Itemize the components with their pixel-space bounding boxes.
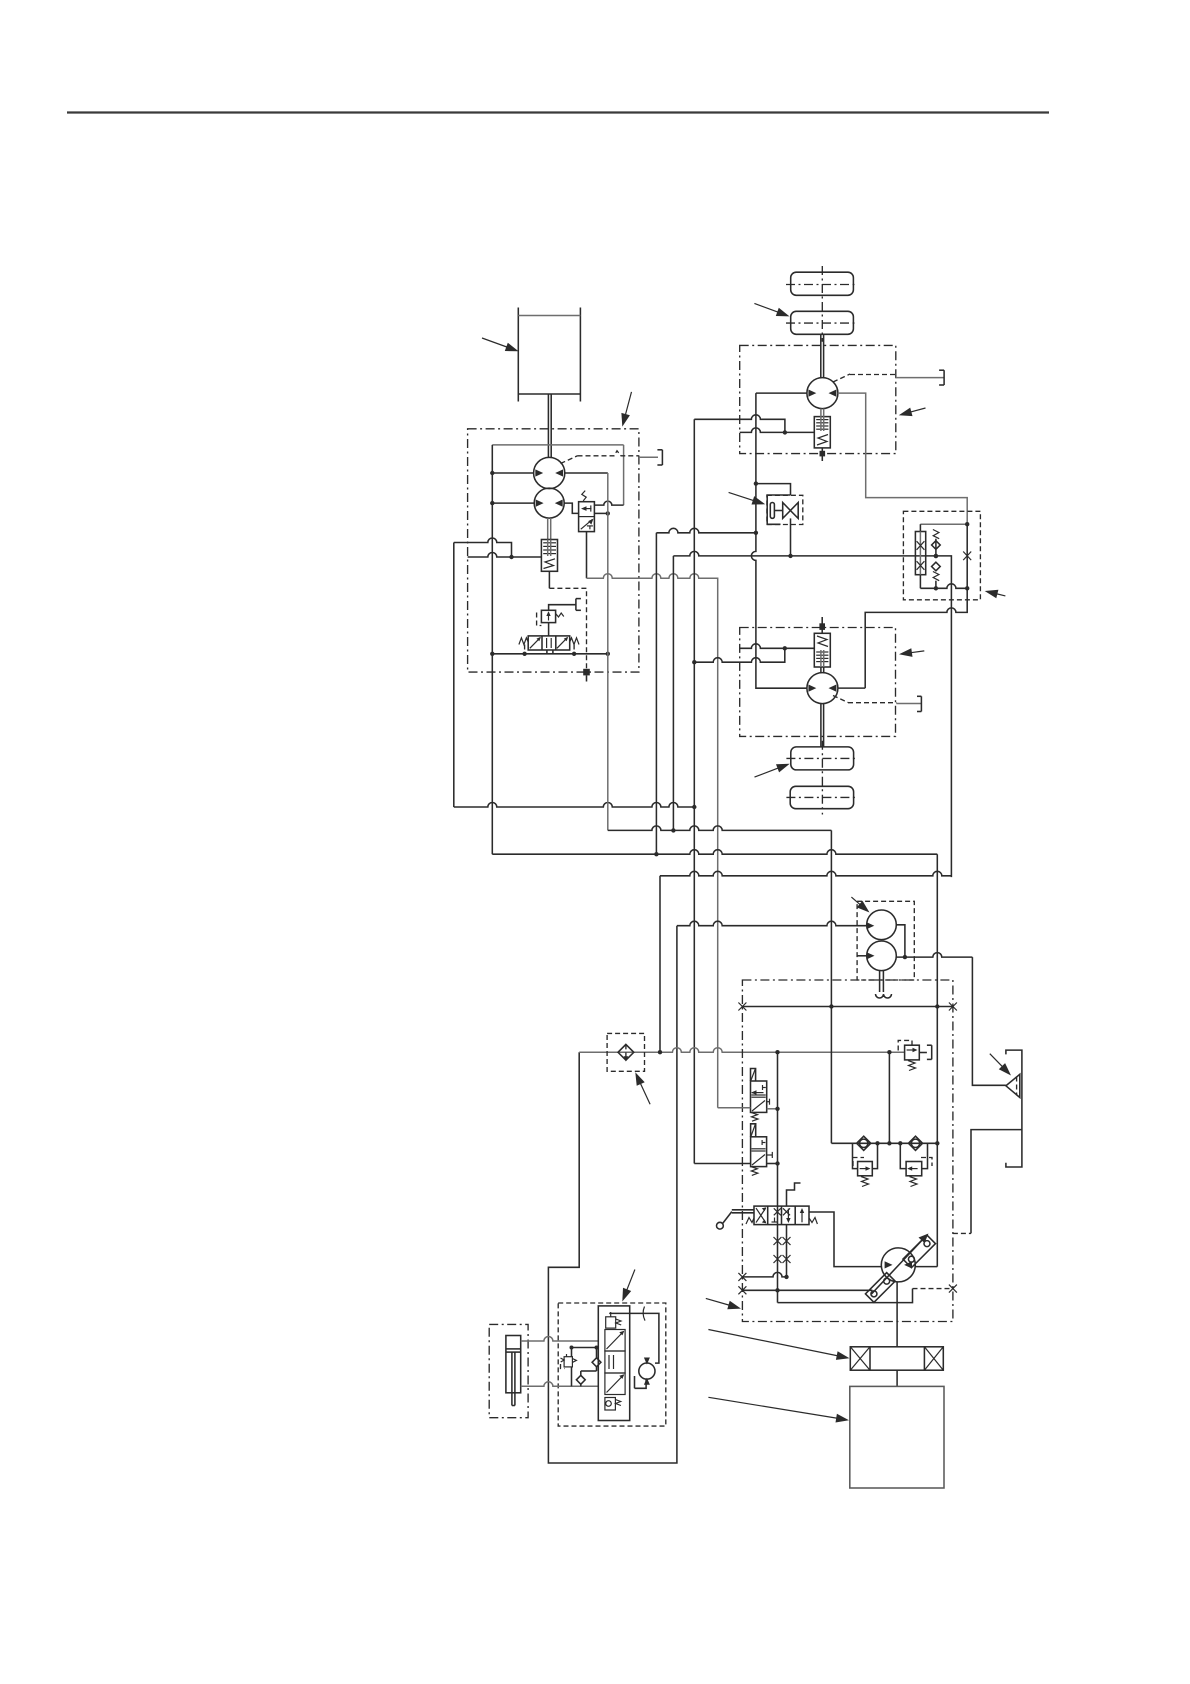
- solenoid valve 2 wires: [694, 1161, 779, 1165]
- cylinder hose (upper): [521, 1337, 599, 1342]
- pump drive shaft: [896, 1282, 898, 1347]
- steering control unit box (dashed): [558, 1303, 666, 1426]
- label arrow to pump unit: [706, 1298, 741, 1309]
- flexible coupling: [850, 1347, 943, 1370]
- left loop riser A: [453, 543, 455, 808]
- motor case drain (dashed) + bracket: [833, 370, 944, 385]
- engine drive shaft: [896, 1370, 898, 1386]
- pilot line to servo (lower): [738, 1286, 872, 1294]
- hydrostatic pump unit enclosure (dash-dot): [742, 980, 953, 1322]
- bus line to relief riser: [608, 826, 832, 833]
- reservoir feed line down: [972, 957, 1006, 1085]
- shuttle outlet to rear motor line: [865, 588, 967, 688]
- return spring section (bottom): [605, 1398, 621, 1411]
- pump input shaft: [548, 394, 551, 458]
- charge/flush line (V2 to shuttle): [673, 551, 951, 877]
- pilot relief top wire + tank bracket: [549, 599, 581, 611]
- servo feed line A: [454, 538, 512, 557]
- label arrow to coupling: [708, 1330, 849, 1360]
- flushing valve drain plug: [820, 448, 826, 461]
- rotary section 1: [605, 1330, 625, 1352]
- charge rail riser: [829, 830, 833, 1143]
- traction pump enclosure (dash-dot): [468, 429, 639, 672]
- shuttle/orifice block (dashed box): [903, 511, 980, 600]
- front axle shaft: [821, 334, 824, 377]
- valve tank stubs: [525, 645, 575, 654]
- label arrow to filter: [635, 1072, 650, 1104]
- label arrow to reservoir: [990, 1054, 1011, 1076]
- pump A-port riser (xC): [607, 473, 609, 830]
- front motor enclosure (dash-dot): [740, 345, 896, 453]
- bus line B2: [492, 850, 937, 857]
- check valve (upper): [592, 1358, 601, 1367]
- rear motor case drain plug: [819, 617, 825, 633]
- shuttle loop bottom wire: [920, 584, 969, 591]
- relief drop wire: [888, 1052, 890, 1143]
- riser V3: [693, 419, 695, 1163]
- label arrow to rear wheels: [755, 764, 790, 777]
- tow (bypass) valve: [767, 495, 803, 556]
- P2 left port wire: [490, 501, 534, 505]
- filter diamond: [618, 1044, 634, 1061]
- label arrow to pump enclosure: [621, 392, 631, 427]
- servo cylinder: [541, 518, 557, 571]
- under-pump drain wire: [778, 1289, 913, 1303]
- detent bracket: [787, 1183, 801, 1206]
- inlet relief (top): [606, 1312, 622, 1328]
- P1 left port wire: [490, 471, 534, 475]
- front wheel (inner): [791, 311, 854, 334]
- tow valve feed wire: [756, 484, 791, 495]
- label arrow to shuttle block: [985, 590, 1006, 599]
- cylinder hose (lower): [521, 1382, 599, 1387]
- servo pilot dashed: [913, 1285, 957, 1293]
- reservoir diffuser cone: [1006, 1074, 1020, 1097]
- charge pump box (dashed): [857, 901, 914, 980]
- engine box (bottom): [850, 1386, 944, 1488]
- top rule line: [67, 111, 1049, 113]
- pump P1 (upper circle): [534, 457, 565, 488]
- regulator lower port wire: [594, 511, 610, 515]
- label arrow to engine: [482, 338, 519, 351]
- riser to filter line: [659, 876, 661, 1052]
- pump B-port riser (xB): [491, 445, 493, 854]
- solenoid valve 1 (forward): [751, 1069, 770, 1122]
- gerotor loop wires: [609, 1307, 659, 1389]
- pilot line to dot (left): [738, 1272, 788, 1281]
- internal check risers: [570, 1346, 599, 1387]
- motor left port wire: [756, 392, 807, 394]
- gerotor metering unit: [639, 1358, 655, 1385]
- front wheel (outer): [791, 272, 854, 295]
- P1 right port wire to xC: [565, 472, 608, 474]
- towing valve supply wire: [809, 1212, 881, 1267]
- crossover wire from V3: [694, 415, 787, 435]
- right check valve: [908, 1136, 922, 1150]
- servo valve drain line (to V4): [587, 574, 718, 1108]
- case drain plug (bottom edge): [583, 669, 590, 682]
- label arrow to charge pump: [851, 897, 869, 912]
- servo piston (upper): [903, 1235, 936, 1268]
- label arrow to rear motor enclosure: [899, 648, 924, 657]
- charge relief valve: [898, 1040, 932, 1070]
- towing valve lever: [717, 1210, 755, 1229]
- bus line B4 (charge suction): [677, 921, 874, 929]
- charge pump circle 1: [867, 910, 897, 940]
- motor A-line (V1 riser link): [656, 528, 756, 533]
- riser V1: [655, 533, 657, 854]
- charge pump shaft + coupling squiggle: [876, 970, 892, 998]
- shuttle loop top wire: [920, 522, 969, 526]
- pump swash diagonal: [872, 1234, 929, 1295]
- pilot case line (dashed) + bracket: [561, 450, 663, 465]
- enclosure drain bus: [490, 652, 610, 656]
- label arrow to tow valve: [729, 492, 766, 504]
- center section: [605, 1351, 625, 1373]
- solenoid valve 2 (reverse): [751, 1124, 773, 1176]
- regulator top port bridge wire: [594, 501, 623, 505]
- long traction line (front motor to rear motor, left side): [751, 393, 807, 688]
- pilot relief valve: [537, 610, 564, 625]
- rear flushing shift valve: [814, 633, 830, 667]
- right system relief valve: [900, 1143, 932, 1186]
- rotary section 2: [605, 1373, 625, 1395]
- label arrow to engine: [708, 1397, 849, 1422]
- label arrow to front motor enclosure: [899, 408, 926, 417]
- steering valve body: [598, 1306, 629, 1421]
- left check valve: [857, 1136, 871, 1150]
- 3-position control valve: [519, 636, 579, 650]
- pressure regulator valve (2-pos): [579, 491, 595, 532]
- tank return loop around steering unit: [548, 926, 677, 1463]
- charge pump circle 2: [857, 941, 896, 971]
- check valve (lower): [576, 1371, 596, 1386]
- flushing shift valve: [814, 409, 830, 448]
- shuttle right branch with orifice cross: [963, 524, 971, 588]
- steering cylinder: [506, 1336, 521, 1406]
- label arrow to front wheels: [754, 303, 789, 316]
- riser V2: [672, 556, 674, 831]
- solenoid valve 1 wires: [718, 1107, 780, 1111]
- reservoir walls: [1006, 1050, 1022, 1167]
- filter suction line B5: [579, 1048, 904, 1055]
- bus line B1: [454, 803, 697, 810]
- rear motor enclosure (dash-dot): [740, 628, 896, 737]
- main pump B riser: [935, 854, 939, 1266]
- charge pressure rail: [738, 1003, 957, 1011]
- rear wheel (inner): [791, 747, 854, 770]
- suction filter (dashed box): [607, 1033, 644, 1071]
- manual towing valve: [746, 1206, 817, 1225]
- steering cylinder box (dash-dot): [489, 1324, 528, 1417]
- wheel centerlines: [786, 266, 857, 342]
- crossover wire from V3 (rear): [692, 648, 785, 664]
- regulator drain down: [586, 532, 588, 579]
- label arrow to steering unit: [622, 1270, 635, 1302]
- check valve row: [831, 1141, 937, 1145]
- left system relief valve: [853, 1143, 878, 1186]
- pump P2 (lower circle): [534, 488, 564, 518]
- check valve branch (middle): [932, 530, 941, 589]
- pump outlet wire: [915, 1266, 937, 1268]
- rear wheel centerlines: [786, 741, 857, 815]
- rear wheel (outer): [790, 786, 853, 808]
- pilot riser (left): [774, 1052, 782, 1302]
- steering relief valve: [561, 1354, 577, 1369]
- flushing valve feed wire: [740, 428, 815, 433]
- rear traction motor: [807, 673, 838, 704]
- servo drain dashed: [549, 571, 586, 669]
- bus line B3: [660, 871, 951, 876]
- servo feed line B: [468, 553, 542, 560]
- orifice cartridge (left branch): [915, 524, 925, 588]
- variable displacement pump: [881, 1248, 915, 1282]
- rear motor case drain (dashed) + bracket: [833, 696, 921, 712]
- pilot riser (right): [783, 1225, 791, 1277]
- rear motor shafts: [821, 667, 824, 747]
- engine box (top left): [518, 308, 580, 402]
- rear motor right port wire: [838, 687, 865, 689]
- dashed link to servo: [953, 1232, 971, 1234]
- front traction motor: [807, 378, 838, 409]
- pilot relief to valve wire: [548, 623, 550, 636]
- P2 right port wire to regulator valve: [564, 503, 578, 513]
- servo piston (lower): [865, 1273, 895, 1303]
- reservoir suction line: [971, 1130, 1022, 1234]
- motor right port wire: [838, 393, 967, 524]
- rear valve feed wire: [740, 644, 815, 651]
- pump top feed line: [492, 445, 623, 505]
- charge pump outlet wires: [896, 925, 972, 960]
